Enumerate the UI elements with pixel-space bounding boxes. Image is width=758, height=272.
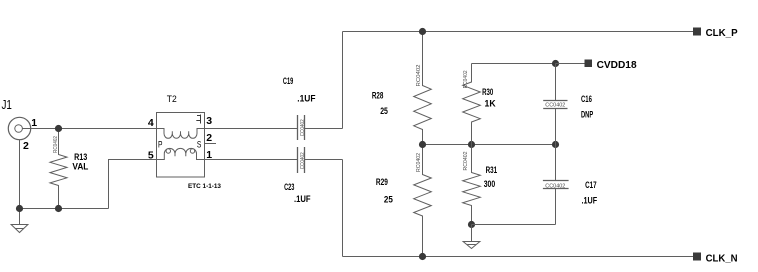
junction node R31 bottom: [468, 221, 475, 228]
transformer T2 polarity dot left: [166, 149, 170, 153]
svg-text:CC0402: CC0402: [300, 152, 306, 169]
svg-text:R29: R29: [376, 177, 388, 187]
wire T2 pin3 to C19: [205, 128, 298, 130]
svg-text:.1UF: .1UF: [297, 93, 316, 103]
svg-text:.1UF: .1UF: [582, 196, 598, 206]
wire ground rail: [20, 208, 109, 210]
wire bottom rail CLK_N: [343, 256, 694, 258]
svg-text:CLK_P: CLK_P: [706, 28, 738, 39]
wire R31 bottom to C17 bottom: [472, 224, 556, 226]
resistor R28: [414, 32, 432, 145]
svg-text:RC0402: RC0402: [463, 70, 469, 88]
junction node mid R28 R29: [419, 141, 426, 148]
svg-text:RC0402: RC0402: [53, 136, 59, 153]
svg-text:CLK_N: CLK_N: [706, 254, 738, 265]
capacitor C23: [298, 147, 305, 173]
ground symbol at R31: [463, 225, 480, 249]
junction node J1 ground: [16, 205, 23, 212]
wire C23 to riser: [305, 159, 343, 161]
svg-text:300: 300: [484, 179, 496, 189]
junction node top rail R28: [419, 28, 426, 35]
connector J1: [8, 117, 30, 139]
wire middle rail: [423, 144, 556, 146]
svg-text:RC0402: RC0402: [416, 153, 422, 172]
transformer T2 pin 2 stub: [205, 143, 217, 145]
svg-text:C23: C23: [284, 182, 294, 192]
svg-text:1K: 1K: [485, 99, 497, 109]
wire J1 pin2 down to ground rail: [19, 140, 21, 209]
transformer T2 polarity dot right: [190, 149, 194, 153]
svg-text:T2: T2: [167, 94, 177, 104]
net CLK_N: [693, 253, 701, 261]
svg-text:C19: C19: [283, 76, 293, 86]
wire R30 top to CVDD18: [472, 63, 556, 65]
svg-text:R28: R28: [372, 90, 384, 100]
wire T2 pin1 to C23: [205, 159, 298, 161]
svg-text:J1: J1: [2, 98, 12, 112]
wire J1 pin1 to T2 pin4: [22, 128, 156, 130]
wire riser down to CLK_N rail: [342, 160, 344, 257]
svg-text:P: P: [158, 140, 163, 150]
svg-text:C17: C17: [585, 180, 597, 190]
svg-text:.1UF: .1UF: [294, 194, 311, 204]
net CLK_P: [693, 28, 701, 36]
wire riser up to CLK_P rail: [342, 32, 344, 129]
svg-text:25: 25: [384, 195, 393, 205]
svg-text:C16: C16: [581, 94, 592, 104]
junction node bottom rail R29: [419, 253, 426, 260]
svg-text:CC0402: CC0402: [545, 184, 565, 190]
capacitor C17: [555, 145, 557, 181]
svg-text:CVDD18: CVDD18: [597, 60, 637, 71]
resistor R30: [463, 64, 481, 145]
transformer T2 body: [157, 113, 205, 178]
net CVDD18: [552, 60, 559, 67]
svg-text:2: 2: [23, 140, 29, 152]
wire riser up to T2 pin5: [109, 160, 157, 209]
svg-text:R30: R30: [482, 87, 493, 97]
junction node J1-R13 top: [55, 125, 62, 132]
resistor R13: [50, 129, 67, 209]
svg-text:RC0402: RC0402: [416, 65, 422, 87]
svg-text:1: 1: [31, 117, 37, 129]
transformer T2 symbol mark: [196, 115, 200, 124]
resistor R29: [414, 145, 432, 257]
junction node R13 bottom: [55, 205, 62, 212]
transformer T2 secondary winding: [157, 148, 205, 159]
resistor R31: [463, 145, 481, 225]
svg-text:25: 25: [380, 106, 388, 116]
junction node mid C16 C17: [552, 141, 559, 148]
svg-text:RC0402: RC0402: [463, 152, 469, 171]
svg-text:4: 4: [148, 117, 154, 129]
transformer T2 primary winding: [157, 129, 205, 139]
svg-text:S: S: [197, 140, 202, 150]
wire C19 to riser: [305, 128, 343, 130]
svg-text:DNP: DNP: [581, 109, 593, 119]
svg-text:VAL: VAL: [72, 162, 88, 172]
svg-text:2: 2: [206, 132, 212, 144]
svg-text:5: 5: [148, 149, 154, 161]
svg-text:R13: R13: [74, 152, 87, 162]
svg-text:CC0402: CC0402: [545, 103, 565, 109]
svg-text:CC0402: CC0402: [300, 119, 306, 136]
svg-text:3: 3: [206, 115, 212, 127]
capacitor C16: [555, 64, 557, 101]
wire top rail CLK_P: [343, 31, 694, 33]
junction node mid R30 R31: [468, 141, 475, 148]
ground symbol at J1: [11, 209, 28, 233]
svg-text:R31: R31: [486, 165, 498, 175]
svg-text:ETC 1-1-13: ETC 1-1-13: [188, 183, 221, 190]
capacitor C19: [298, 115, 305, 140]
